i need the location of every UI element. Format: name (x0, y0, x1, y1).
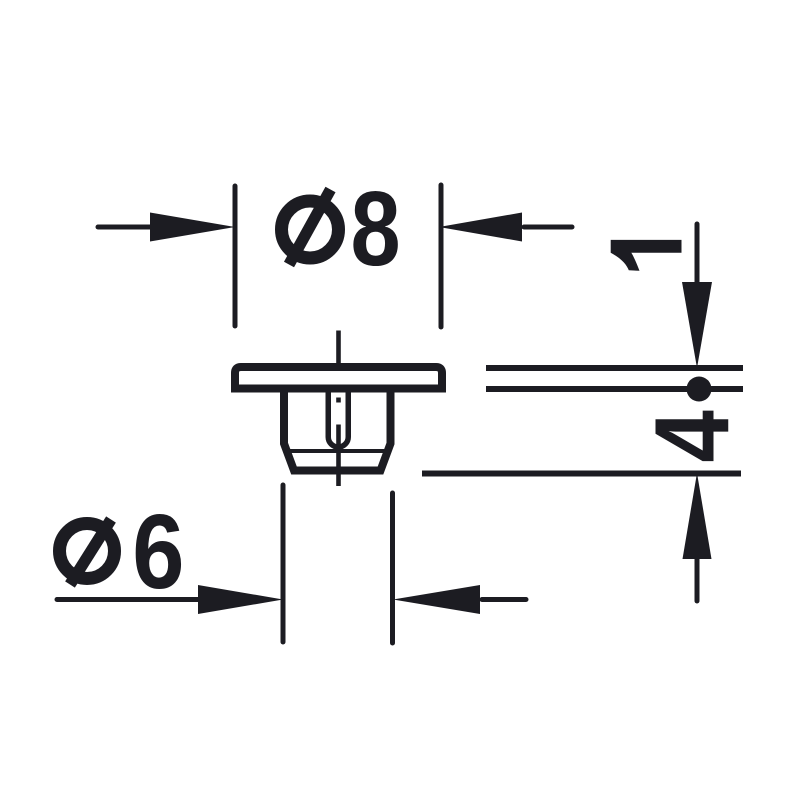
depth line 3 (bottom) (422, 471, 741, 477)
arrowhead right (Ø8) (439, 213, 522, 242)
dimension 1: dot terminator (687, 377, 712, 402)
label Ø symbol (Ø8) : slash (289, 190, 331, 265)
dimension tail left (Ø8) (98, 225, 152, 230)
label Ø symbol (Ø6) : circle (60, 524, 115, 579)
dimension tail right (Ø6) (482, 597, 526, 602)
dimension 1: vertical tail (695, 224, 700, 284)
arrowhead left (Ø6) (198, 585, 283, 614)
dimension 4: up arrowhead (683, 473, 712, 559)
panel line 1 (top surface) (486, 365, 743, 371)
extension line left (Ø8) (233, 186, 238, 326)
extension line right (Ø8) (439, 185, 444, 327)
part: flange bottom edge (231, 385, 446, 393)
part: inner shoulder line (290, 449, 385, 453)
panel line 2 (flange seat) (486, 386, 743, 392)
label Ø symbol (Ø8) : circle (282, 201, 339, 258)
svg-text:6: 6 (132, 494, 184, 611)
dimension 1: down arrowhead (682, 282, 712, 368)
centerline segment A (336, 331, 341, 372)
centerline segment B (336, 425, 341, 487)
text 1 (rotated, custom glyph) (611, 240, 682, 271)
svg-text:8: 8 (350, 169, 400, 287)
arrowhead right (Ø6) (393, 585, 480, 614)
arrowhead left (Ø8) (150, 213, 235, 242)
centerline dot dash (336, 398, 341, 403)
label Ø symbol (Ø6) : slash (70, 520, 111, 585)
svg-text:4: 4 (633, 410, 751, 463)
dimension 4: vertical tail (695, 558, 700, 601)
part: flange (Ø8 head) (235, 367, 442, 393)
part: body walls, chamfered tip and bottom (284, 388, 391, 471)
dimension tail left (Ø6) (57, 597, 200, 602)
part: center slot (U channel) (328, 392, 348, 447)
extension line left (Ø6) (281, 485, 286, 642)
dimension tail right (Ø8) (524, 225, 572, 230)
extension line right (Ø6) (390, 493, 395, 643)
